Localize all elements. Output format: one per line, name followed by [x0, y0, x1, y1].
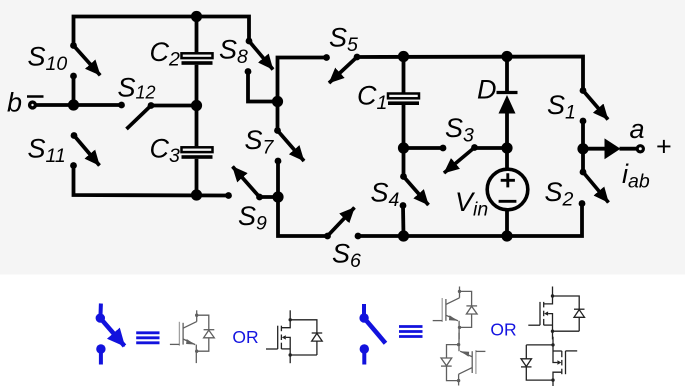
current arrow i_ab	[605, 138, 621, 159]
switch S12	[118, 102, 154, 129]
wire junction to S7 top	[276, 102, 280, 131]
diode D	[497, 93, 518, 114]
wire S5 left contact L to junction	[278, 58, 327, 102]
svg-text:+: +	[656, 132, 672, 162]
legend equivalence sign 2	[399, 327, 423, 337]
legend switch type 1 (blue, with arrow)	[96, 304, 125, 365]
node bottom-left	[191, 189, 202, 200]
wire S5 pivot to top-right rail	[357, 57, 583, 91]
node S3-D	[501, 142, 512, 153]
switch S10	[70, 42, 100, 79]
terminal a	[637, 146, 643, 152]
wire Vin bottom to bottom rail	[505, 211, 509, 236]
node C1 bottom mid	[398, 142, 409, 153]
wire S7 bottom to lower junction	[276, 161, 280, 197]
node b junction	[68, 99, 79, 110]
wire S4 bottom to bottom rail	[401, 206, 405, 237]
node top rail C2	[191, 11, 202, 22]
node S7-S9 junction	[272, 191, 283, 202]
switch S1	[580, 87, 608, 124]
legend MOSFET single	[266, 310, 322, 363]
wire C3 bottom to left bottom rail	[195, 159, 199, 195]
svg-text:b: b	[7, 88, 22, 118]
wire S8 bottom L to junction	[248, 72, 278, 102]
node S4 bottom rail	[398, 230, 409, 241]
legend MOSFET pair bottom	[521, 337, 577, 386]
legend IGBT single	[170, 310, 214, 363]
switch S11	[70, 132, 99, 169]
switch S7	[274, 127, 304, 164]
legend IGBT pair bottom	[441, 333, 485, 386]
svg-text:a: a	[630, 114, 645, 144]
node Vin bottom rail	[501, 230, 512, 241]
wire mid node down to S4 top	[402, 148, 406, 177]
wire lower junction down to S6 left contact	[278, 197, 328, 236]
legend MOSFET pair top	[528, 287, 584, 340]
capacitor C1	[388, 94, 419, 106]
wire C2 bottom to C3 top	[195, 65, 199, 146]
switch S4	[400, 173, 429, 209]
node C1 top	[398, 51, 409, 62]
wire S11 bottom to bottom-left rail to S9 left contact	[74, 166, 229, 196]
wire top-left rail	[74, 17, 250, 46]
node D top	[501, 51, 512, 62]
svg-text:OR: OR	[490, 320, 516, 340]
switch S9	[225, 167, 263, 201]
wire C2 top feed	[195, 17, 199, 53]
node S8-S5 junction	[272, 96, 283, 107]
wire D anode to node	[505, 114, 509, 149]
wire a junction to S2 top	[581, 148, 585, 172]
wire output arrow to terminal a	[620, 147, 638, 151]
wire node to Vin top	[505, 148, 509, 168]
wire a junction to output arrow	[583, 147, 606, 151]
svg-text:D: D	[477, 74, 497, 104]
svg-text:OR: OR	[232, 327, 258, 347]
minus sign at b	[27, 95, 44, 98]
switch S5	[323, 54, 360, 83]
wire bottom rail	[358, 204, 582, 237]
node a junction	[577, 143, 588, 154]
capacitor C3	[182, 147, 213, 159]
wire S10 bottom to b node	[72, 76, 76, 105]
switch S8	[245, 38, 273, 75]
legend IGBT pair top	[433, 287, 477, 340]
wire S9 pivot to lower junction	[260, 195, 279, 199]
legend switch type 2 (blue, no arrow)	[359, 304, 385, 365]
wire S12 pivot to mid node	[151, 104, 197, 108]
wire S3 pivot to D node	[475, 146, 508, 150]
switch S3	[440, 144, 478, 173]
wire mid node to S3 left contact	[404, 146, 444, 150]
wire S1 bottom to a junction	[581, 121, 585, 148]
wire b terminal to S12 left contact	[36, 103, 122, 107]
capacitor C2	[182, 53, 213, 65]
wire C1 bottom to mid node	[402, 105, 406, 148]
legend equivalence sign 1	[136, 333, 159, 343]
terminal b	[30, 102, 36, 108]
switch S2	[579, 169, 609, 207]
node mid C2-C3	[191, 100, 202, 111]
wire C1 top feed	[402, 57, 406, 93]
source Vin	[487, 169, 528, 210]
wire D top feed	[505, 57, 509, 92]
switch S6	[324, 208, 361, 240]
